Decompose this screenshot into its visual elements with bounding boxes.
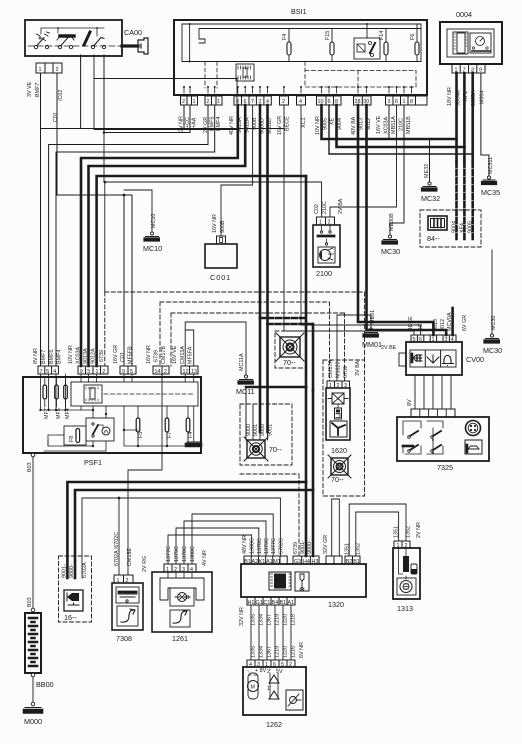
box 1620 washer unit [326, 388, 350, 455]
svg-text:B03: B03 [27, 597, 33, 607]
svg-text:M: M [251, 685, 256, 691]
svg-text:-: - [247, 668, 249, 674]
wire +AA [104, 55, 190, 133]
svg-text:1335: 1335 [251, 646, 257, 658]
CA00 connector pins 1,2 [36, 63, 62, 73]
labels 9004 XF4 9005 [452, 221, 474, 233]
labels 40V BA 9013 9012 [351, 116, 372, 135]
wires 32V GR risers [332, 499, 340, 556]
svg-text:1379C: 1379C [264, 538, 270, 554]
svg-text:ME01: ME01 [370, 310, 376, 324]
svg-text:1320: 1320 [328, 600, 344, 609]
svg-text:9012A: 9012A [91, 348, 97, 364]
ground MC32 [389, 105, 440, 203]
svg-text:3V VE: 3V VE [27, 81, 33, 97]
ground MC10 [124, 190, 162, 253]
dashed connector box 84 [420, 210, 481, 247]
svg-text:16V GR: 16V GR [277, 116, 283, 135]
svg-text:9004: 9004 [337, 118, 343, 130]
7325 car icon [465, 440, 482, 454]
1320 IC icon [269, 572, 291, 590]
svg-text:B03: B03 [27, 462, 33, 472]
battery BB00 [25, 613, 54, 702]
wire 210C from BSI to 2100 [330, 105, 397, 217]
bold wire 9000D down [259, 105, 262, 432]
svg-text:6739: 6739 [343, 366, 349, 378]
CA00 internal switch contacts [34, 27, 105, 49]
svg-text:1220: 1220 [283, 646, 289, 658]
svg-text:BMF4: BMF4 [57, 350, 63, 364]
BSI1 connector strip G pins 28,30 [354, 96, 372, 105]
labels above PSF1 strip 7,5,4 [33, 348, 63, 364]
svg-text:5: 5 [130, 369, 133, 375]
svg-text:9001-: 9001- [61, 564, 67, 578]
box 7325 column switch unit [397, 417, 489, 472]
connector 1620 pins 1,2,3 [327, 381, 350, 389]
PSF1 fuse F7 [165, 406, 173, 440]
svg-text:/C02: /C02 [58, 90, 64, 101]
svg-text:2: 2 [56, 67, 59, 73]
labels above PSF1 strip 12,13 [172, 345, 194, 364]
label 3V VE / BMF7 [27, 81, 64, 122]
svg-text:1: 1 [217, 99, 220, 105]
ground M000 [24, 702, 42, 726]
ground MC35 [481, 157, 500, 197]
node B03 upper [27, 453, 35, 608]
instrument cluster 0004 box [440, 10, 502, 64]
svg-text:MC11: MC11 [236, 387, 255, 396]
wire 6739 solid segment [104, 182, 106, 292]
wire 900B to C001 [221, 105, 253, 236]
dashed region box R3 [171, 313, 345, 366]
svg-text:32V NR: 32V NR [239, 607, 245, 626]
PSF1 fuse MF5 [55, 377, 62, 419]
svg-text:16V VE: 16V VE [172, 345, 178, 364]
svg-text:16V VE: 16V VE [376, 115, 382, 134]
svg-text:1262: 1262 [266, 720, 282, 729]
bold branch to lower horn [246, 386, 306, 389]
BSI1 internal bus lines [182, 23, 421, 63]
svg-text:16--: 16-- [64, 613, 77, 622]
CV00 icon wiper [427, 355, 439, 363]
PSF1 fuse F8 [48, 426, 86, 446]
svg-text:MC10: MC10 [143, 244, 162, 253]
box CV00 steering column controls [399, 342, 484, 375]
svg-text:7: 7 [251, 99, 254, 105]
svg-text:XE: XE [330, 117, 336, 125]
svg-text:F5: F5 [138, 432, 144, 438]
svg-text:1335: 1335 [251, 614, 257, 626]
svg-text:1367: 1367 [267, 614, 273, 626]
PSF1 connector strip 9,5 [120, 366, 136, 375]
svg-text:6V GR: 6V GR [462, 315, 468, 331]
thin long wire y495 [33, 494, 67, 496]
BSI1 connector symbol [236, 64, 254, 81]
bold dashed link 9001 [268, 323, 314, 326]
CV00 icon car lights [412, 354, 422, 362]
svg-text:1216: 1216 [291, 646, 297, 658]
svg-text:CM17A: CM17A [328, 360, 334, 378]
wire XF1 from 0004 [463, 73, 466, 162]
svg-text:1219: 1219 [275, 646, 281, 658]
svg-text:3: 3 [388, 99, 391, 105]
svg-text:8V: 8V [407, 399, 413, 406]
box C001 [205, 244, 237, 282]
wire BMF7 from CA00 pin1 to PSF1 [40, 73, 42, 366]
PSF1 connector strip 7,5,4 [38, 366, 58, 375]
wires CV00 to 7325 [415, 375, 451, 409]
wires 1261 to 1320 risers [168, 514, 273, 564]
wire 9004 staircase to dashed column [337, 105, 465, 147]
wire BMF5 [49, 105, 208, 366]
svg-text:6702C: 6702C [278, 538, 284, 554]
svg-text:9005: 9005 [468, 221, 474, 233]
svg-text:6: 6 [395, 99, 398, 105]
1620 lamp crossed icon [328, 393, 348, 408]
svg-text:BECE: BECE [285, 116, 291, 131]
1320 injector icon [295, 572, 309, 591]
svg-text:MC11A: MC11A [239, 353, 245, 371]
svg-text:6739: 6739 [99, 350, 105, 362]
svg-text:6739: 6739 [293, 542, 299, 554]
labels wires lower row [251, 642, 306, 658]
junction node C01/MF5FB [123, 194, 126, 197]
dashed column 1620 box [323, 360, 365, 496]
connector 1313 pins 1,2 [394, 541, 410, 549]
1262 motor icon [247, 668, 267, 699]
1620 washer jet icon [330, 421, 347, 437]
svg-text:0004: 0004 [456, 10, 472, 19]
svg-text:C001: C001 [210, 273, 231, 282]
bold wire MCV0A stub [451, 308, 454, 335]
wire BECE from BSI [41, 105, 285, 129]
svg-text:1220: 1220 [283, 614, 289, 626]
svg-text:C02: C02 [314, 204, 320, 214]
relay in BSI1 [354, 23, 380, 59]
svg-text:14: 14 [155, 369, 161, 375]
BSI1 box [174, 7, 427, 95]
svg-text:32V GR: 32V GR [323, 535, 329, 554]
svg-text:1313: 1313 [397, 604, 413, 613]
dashed box 16 [59, 556, 92, 622]
wire MF5FB [124, 195, 132, 366]
0004 IC symbol [453, 32, 468, 54]
svg-text:8V NR: 8V NR [33, 348, 39, 364]
svg-text:7: 7 [40, 369, 43, 375]
bold wire right riser 9001 [305, 176, 308, 387]
wire CA00 to 2100 C02 [104, 133, 322, 218]
svg-text:70--: 70-- [269, 445, 282, 454]
PSF1 fuse MF4 [64, 377, 71, 419]
labels 10V NR 9005 XE 9004 [315, 116, 343, 135]
connector 7308 pins 1,2 [114, 575, 133, 584]
svg-text:6V NR: 6V NR [299, 642, 305, 658]
PSF1 fuse MF7 [43, 377, 50, 419]
ground MC11 [236, 353, 255, 396]
svg-text:1: 1 [403, 99, 406, 105]
labels above 1320 [242, 535, 329, 554]
BSI1 connector strip F pins 10,6,8 [317, 96, 342, 105]
svg-text:ME32: ME32 [424, 164, 430, 178]
svg-text:9013: 9013 [359, 118, 365, 130]
svg-text:9001-: 9001- [300, 540, 306, 554]
wire M004 to MC35 [481, 73, 489, 176]
svg-text:ME30B: ME30B [389, 213, 395, 231]
wire BECE to CV00 [284, 129, 414, 336]
label 16V NR 900B [212, 214, 226, 233]
BSI1 connector strip C pins 8,6,7,2,4 [234, 96, 271, 105]
ground MC30 center with wire MB51B [381, 105, 404, 256]
fuse F6 [410, 24, 419, 62]
svg-text:1334: 1334 [259, 646, 265, 658]
BSI1 connector strip B pins 2,1 [205, 96, 222, 105]
bold wire 9013 to CV00 [358, 105, 433, 335]
svg-text:1218: 1218 [291, 614, 297, 626]
dashed bold wire 9005 to 84 box [471, 162, 474, 240]
box 2100 cigar lighter [313, 225, 340, 278]
svg-text:1': 1' [267, 686, 271, 692]
box PSF1 engine fusebox [23, 377, 201, 467]
ground MM01 [337, 310, 382, 381]
svg-text:1334: 1334 [259, 614, 265, 626]
wire C01 from CA00 pin2 [57, 73, 124, 366]
bold trunk left 9001 [67, 482, 306, 578]
labels at 16 box drops [61, 562, 88, 578]
bold dashed link 9000 [260, 317, 306, 320]
svg-text:BSI1: BSI1 [291, 7, 307, 16]
svg-text:1379C: 1379C [174, 546, 180, 562]
labels above CV00 [381, 312, 468, 351]
svg-text:MC30: MC30 [381, 247, 400, 256]
svg-text:BB00: BB00 [36, 680, 54, 689]
svg-text:C01: C01 [53, 112, 59, 122]
svg-text:16V GR: 16V GR [113, 345, 119, 364]
svg-text:4: 4 [299, 99, 302, 105]
svg-text:9000: 9000 [260, 424, 266, 436]
horn speaker 70 lower crossed [244, 437, 282, 461]
svg-text:6739: 6739 [154, 350, 160, 362]
svg-text:6: 6 [328, 99, 331, 105]
svg-text:16V NR: 16V NR [212, 214, 218, 233]
svg-text:MF5FA: MF5FA [188, 346, 194, 364]
svg-text:+AA: +AA [192, 117, 198, 128]
svg-text:MB51B: MB51B [406, 116, 412, 134]
svg-text:BMF5: BMF5 [49, 350, 55, 364]
svg-text:2100: 2100 [316, 269, 332, 278]
svg-text:9000-: 9000- [69, 564, 75, 578]
svg-text:16V NR: 16V NR [146, 345, 152, 364]
svg-text:7308: 7308 [116, 634, 132, 643]
wire key feed loop [94, 55, 237, 130]
bold wire XC03A long run [97, 176, 306, 366]
wire 9005A from 0004 [471, 73, 474, 162]
svg-text:2V BA: 2V BA [338, 198, 344, 214]
svg-text:2: 2 [282, 99, 285, 105]
svg-text:9012: 9012 [440, 319, 446, 331]
box 1320 engine ECU [241, 564, 366, 609]
PSF1 connector strip 14,2 [153, 366, 169, 375]
wires 1320 bottom to 1262 [251, 605, 291, 660]
svg-text:10V NR: 10V NR [68, 345, 74, 364]
svg-text:1620: 1620 [331, 446, 347, 455]
key-link dash line [28, 45, 122, 47]
dashed box around horn 70 upper [275, 331, 306, 368]
labels CM17A M1620 6739 3V BA [328, 360, 361, 378]
box 1261 mirror control [152, 572, 212, 643]
horn speaker 70 bottom crossed [328, 455, 351, 484]
svg-text:BMF7: BMF7 [41, 350, 47, 364]
svg-text:40V NR: 40V NR [229, 116, 235, 135]
svg-text:1351: 1351 [345, 543, 351, 555]
PSF1 fuse F5 [136, 406, 144, 440]
PSF1 internal wires [39, 374, 193, 451]
dashed bottom segment [240, 474, 299, 556]
bold wire 9012 to CV00 [367, 105, 447, 335]
svg-text:CA00: CA00 [124, 28, 142, 37]
dashed wire 6739 riser to 1620 [330, 302, 345, 381]
svg-text:1377C: 1377C [166, 546, 172, 562]
connector 2100 pins 1,2 [317, 217, 335, 226]
1262 level sensor triangles [267, 669, 283, 699]
labels 2V NR +CC +AA [179, 116, 198, 132]
bold trunk 9001 down to 1320 [305, 387, 308, 556]
BSI1 connector strip D pin 2 [280, 96, 289, 105]
PSF1 connector strip 9,5,1,2 [78, 366, 108, 375]
svg-text:1261: 1261 [172, 634, 188, 643]
labels 16V VE XC03A MB51A 210C MB51B [376, 115, 412, 134]
svg-text:40V BA: 40V BA [351, 116, 357, 135]
1262 sensor box icon [286, 690, 303, 710]
svg-text:9001: 9001 [268, 424, 274, 436]
wire 9004A from 0004 [455, 73, 458, 162]
svg-text:3V BA: 3V BA [355, 360, 361, 376]
svg-text:B: B [186, 595, 190, 601]
labels 16V GR BECE [277, 116, 291, 135]
0004 gauge symbol [470, 33, 491, 53]
dashed region box R2 [160, 302, 330, 366]
dashed bold wire XF4 to 84 box [463, 162, 466, 240]
wire 6702A horizontal [82, 498, 280, 578]
svg-text:M1620: M1620 [336, 362, 342, 378]
svg-text:9005: 9005 [323, 118, 329, 130]
svg-text:2V RG: 2V RG [142, 556, 148, 572]
svg-text:F4: F4 [282, 34, 288, 40]
svg-text:9013A: 9013A [83, 348, 89, 364]
svg-text:CM17B: CM17B [161, 346, 167, 364]
svg-text:F7: F7 [167, 432, 173, 438]
svg-text:CV00: CV00 [466, 355, 484, 364]
svg-text:2V NR: 2V NR [416, 522, 422, 538]
dashed box speaker lower [240, 404, 292, 465]
svg-text:XC1: XC1 [418, 321, 424, 332]
svg-text:+ 8V: + 8V [255, 668, 267, 674]
wire drops 9000/9001 into speaker box [246, 387, 274, 440]
wire 9005 staircase to dashed column [322, 105, 457, 139]
svg-text:MC10: MC10 [151, 214, 157, 228]
connector pin C001 [217, 236, 226, 244]
svg-text:MF5FB: MF5FB [128, 346, 134, 364]
bold trunk 9000 down to 1320 [312, 390, 315, 556]
svg-text:6702A /6702C: 6702A /6702C [114, 532, 120, 566]
svg-text:F14: F14 [379, 31, 385, 40]
7325 internal contacts [403, 421, 443, 454]
svg-text:C01: C01 [120, 352, 126, 362]
svg-text:F4: F4 [188, 432, 194, 438]
svg-text:F15: F15 [325, 31, 331, 40]
svg-text:1351: 1351 [394, 526, 400, 538]
labels above 1261 [166, 546, 208, 566]
labels above PSF1 strip 14,2 [146, 345, 167, 364]
labels 18V NR 9004A XF1 9005A M004 [447, 87, 486, 106]
bold wire 9013A to PSF1 [81, 105, 238, 366]
PSF1 inner module box [71, 382, 198, 406]
wire BMF4 [56, 105, 215, 366]
PSF1 internal ground [186, 406, 201, 446]
1620 sensor icon [335, 408, 342, 419]
svg-text:1219: 1219 [275, 614, 281, 626]
svg-text:MCV0A: MCV0A [447, 312, 453, 331]
ignition switch CA00 box [25, 20, 142, 56]
box 7308 horn [112, 583, 143, 643]
BSI1 connector strip E pin 4 [297, 96, 306, 105]
svg-text:10V NR: 10V NR [315, 116, 321, 135]
bold wire 9012A to PSF1 [89, 105, 246, 366]
connector 1262 pins 4,3,1,6,5,2 [247, 660, 295, 668]
wire XE staircase to dashed column [329, 105, 473, 154]
svg-text:900B: 900B [220, 220, 226, 233]
svg-text:1352: 1352 [406, 526, 412, 538]
svg-text:1378C: 1378C [257, 538, 263, 554]
svg-text:MC32: MC32 [421, 194, 440, 203]
svg-text:9: 9 [122, 369, 125, 375]
svg-text:2V BE: 2V BE [381, 345, 397, 351]
wires 1351 1352 loop to 1313 [349, 504, 406, 556]
svg-text:1380C: 1380C [190, 546, 196, 562]
BSI1 connector strip A pins 2,1 [181, 96, 198, 105]
wire CM15E to 7308 pin2 [128, 374, 162, 575]
connector 1320 bottom strip [247, 597, 295, 606]
svg-text:1380C: 1380C [250, 538, 256, 554]
svg-text:1377C: 1377C [271, 538, 277, 554]
svg-text:1378C: 1378C [182, 546, 188, 562]
box 1262 fuel gauge sender [243, 667, 306, 729]
svg-text:F8: F8 [69, 436, 75, 442]
labels above PSF1 strip 9,5 second [113, 345, 134, 364]
labels C02 210C 2V BA [314, 198, 344, 214]
svg-text:9000-: 9000- [307, 540, 313, 554]
labels 40V NR 9013A 9012A 900B 9000D 9001D [229, 116, 273, 135]
svg-text:9000: 9000 [246, 424, 252, 436]
svg-text:XC1: XC1 [301, 118, 307, 129]
connector 1261 pins 1,2,3,4 [164, 564, 196, 573]
svg-text:2': 2' [267, 669, 271, 675]
ground MC30 right of CV00 [483, 250, 502, 355]
junction 6702 to 7308 [118, 497, 121, 500]
dashed region box R1 [105, 292, 365, 366]
node B03 lower [27, 597, 35, 611]
svg-text:BECE: BECE [408, 316, 414, 331]
fuse F4 [282, 29, 291, 62]
PSF1 fuse F4b [186, 406, 194, 440]
svg-text:1352: 1352 [356, 543, 362, 555]
svg-text:48V NR: 48V NR [242, 535, 248, 554]
svg-text:1367: 1367 [267, 646, 273, 658]
svg-text:MM01: MM01 [362, 340, 382, 349]
key symbol [122, 38, 148, 54]
svg-text:2: 2 [102, 369, 105, 375]
bold wire right riser 9000 [312, 324, 315, 390]
labels 2V GR BMF5 BMF4 [203, 117, 222, 133]
